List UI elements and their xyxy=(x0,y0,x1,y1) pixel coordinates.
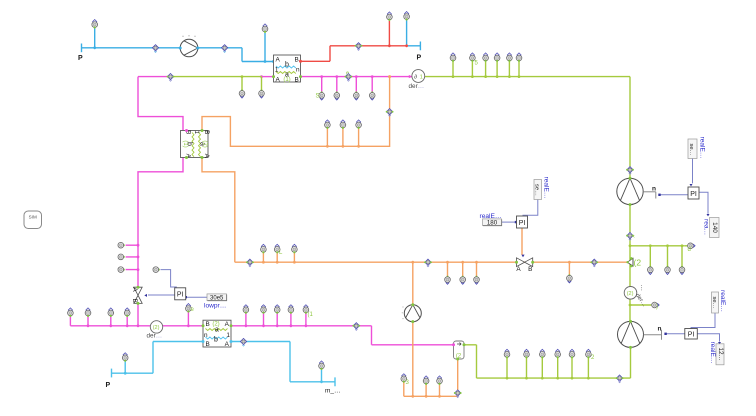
svg-text:A: A xyxy=(516,266,521,273)
svg-text:rea…: rea… xyxy=(703,219,710,235)
svg-text:180: 180 xyxy=(487,219,498,226)
svg-text:se…: se… xyxy=(711,297,717,309)
svg-text:e: e xyxy=(346,71,349,77)
svg-text:1: 1 xyxy=(275,66,279,73)
svg-text:PI: PI xyxy=(519,220,526,227)
svg-text:b: b xyxy=(214,336,218,343)
svg-text:B: B xyxy=(528,266,532,273)
svg-text:realE…: realE… xyxy=(709,342,716,364)
svg-text:(1: (1 xyxy=(308,312,314,318)
svg-text:n: n xyxy=(658,326,662,333)
svg-text:‹: ‹ xyxy=(633,234,635,240)
svg-text:B: B xyxy=(205,321,209,328)
svg-text:1: 1 xyxy=(420,74,423,80)
svg-text:a: a xyxy=(215,327,219,334)
svg-text:12…: 12… xyxy=(717,347,724,361)
svg-text:P: P xyxy=(106,382,111,389)
svg-text:A: A xyxy=(225,341,230,348)
svg-text:A: A xyxy=(275,77,280,84)
svg-text:A: A xyxy=(131,287,138,292)
svg-text:B: B xyxy=(294,77,298,84)
svg-text:lowpr…: lowpr… xyxy=(204,303,226,310)
svg-text:): ) xyxy=(656,304,658,310)
svg-text:PI: PI xyxy=(177,292,184,299)
svg-text:(2): (2) xyxy=(153,325,160,331)
svg-text:P: P xyxy=(78,55,83,62)
svg-text:(2): (2) xyxy=(212,321,219,327)
svg-text:n: n xyxy=(204,332,208,339)
svg-text:realE…: realE… xyxy=(719,290,726,312)
svg-text:der…: der… xyxy=(147,333,163,340)
svg-text:se…: se… xyxy=(533,184,539,196)
svg-text:der…: der… xyxy=(409,83,425,90)
svg-text:realE…: realE… xyxy=(543,177,550,199)
svg-text:B: B xyxy=(131,299,138,303)
svg-text:B: B xyxy=(205,341,209,348)
svg-text:(2): (2) xyxy=(627,291,634,297)
svg-text:(1): (1) xyxy=(283,77,290,83)
svg-text:1: 1 xyxy=(193,130,200,134)
svg-text:(2): (2) xyxy=(202,140,208,147)
svg-text:PI: PI xyxy=(688,332,695,339)
svg-text:∂: ∂ xyxy=(414,74,417,80)
svg-text:PI: PI xyxy=(690,191,697,198)
svg-text:d: d xyxy=(688,247,691,253)
svg-text:S: S xyxy=(316,94,320,100)
svg-text:se…: se… xyxy=(688,144,694,156)
svg-text:A: A xyxy=(203,154,210,159)
svg-text:A: A xyxy=(225,321,230,328)
svg-text:B: B xyxy=(294,57,298,64)
svg-text:n: n xyxy=(652,186,656,193)
svg-text:realE…: realE… xyxy=(699,137,706,159)
svg-text:30e5: 30e5 xyxy=(210,295,224,301)
svg-text:(1): (1) xyxy=(182,140,188,147)
svg-text:B: B xyxy=(203,130,210,134)
svg-text:n: n xyxy=(296,67,300,74)
svg-text:(2: (2 xyxy=(634,258,642,268)
svg-text:m_…: m_… xyxy=(325,388,341,395)
svg-text:140: 140 xyxy=(711,222,718,233)
svg-text:P: P xyxy=(417,55,422,62)
svg-text:SIM: SIM xyxy=(29,215,37,220)
svg-text:1: 1 xyxy=(226,332,230,339)
svg-text:b: b xyxy=(285,61,289,68)
svg-text:realE…: realE… xyxy=(480,213,502,220)
svg-text:A: A xyxy=(275,57,280,64)
